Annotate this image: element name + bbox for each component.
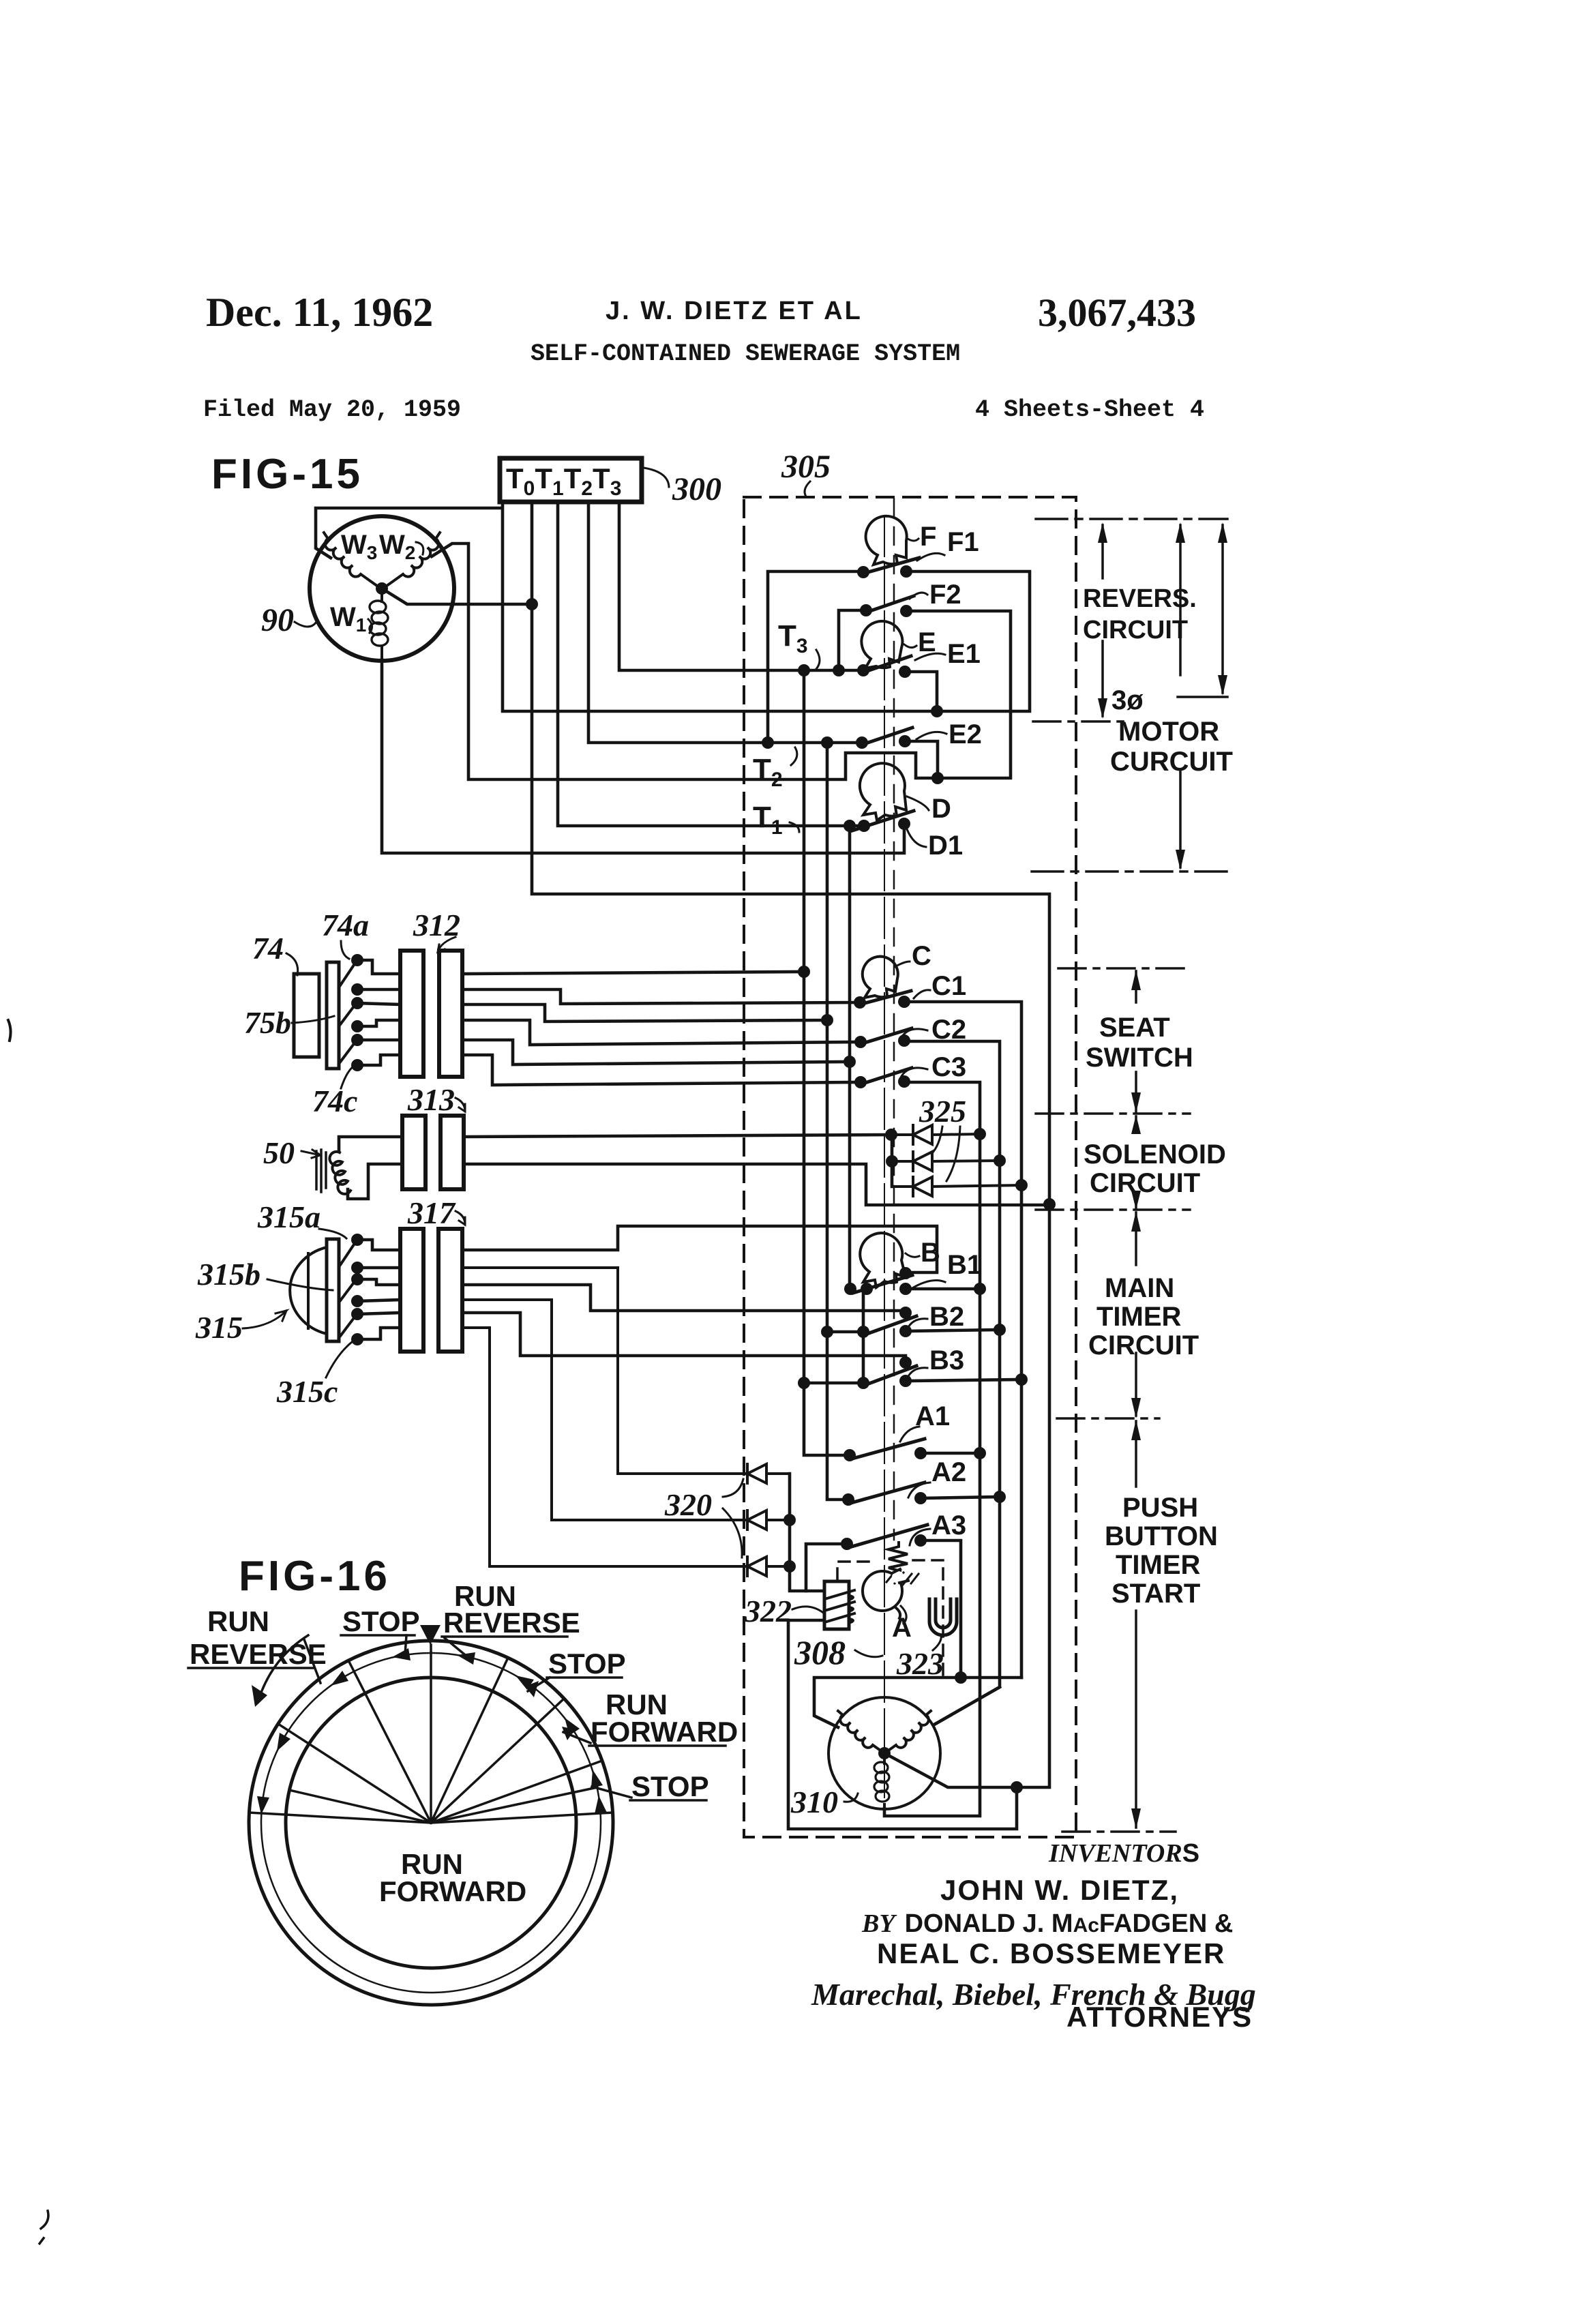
wire W1 net (motor W1 down and right to D1 contact) [382, 659, 904, 853]
leader RUN REVERSE left into ring [304, 1639, 320, 1683]
node riser/B2 pivot junction [821, 1326, 833, 1338]
node C2 right [898, 1034, 910, 1047]
leader 317 arrow [456, 1211, 465, 1225]
wire 312 pin1 to riser x1179 [462, 972, 804, 974]
leader 322 [792, 1607, 822, 1612]
motor 90 winding W1 coil [380, 589, 383, 659]
leader 320 a [723, 1479, 743, 1497]
wire B1 loop from 317 pin1 around relay B [462, 1226, 937, 1272]
node A3 pivot [841, 1538, 853, 1550]
leader 305 [805, 481, 810, 496]
svg-text:310: 310 [790, 1785, 838, 1819]
node diode a anode [885, 1129, 897, 1141]
node C1 right [898, 996, 910, 1008]
node 315c up [351, 1308, 363, 1320]
leader B1 [911, 1281, 945, 1289]
leader 325 a [931, 1127, 942, 1154]
wire C1 right to bus [904, 1002, 1021, 1678]
svg-text:325: 325 [919, 1094, 966, 1129]
contact A2 [848, 1483, 925, 1504]
leader C [895, 962, 910, 967]
wire diode 320 tie bar [788, 1474, 792, 1567]
contact A3 [847, 1525, 927, 1548]
svg-text:TIMER: TIMER [1116, 1550, 1201, 1580]
switch plate 74 [327, 962, 339, 1069]
svg-text:300: 300 [672, 471, 721, 507]
svg-text:INVENTORS: INVENTORS [1048, 1839, 1199, 1868]
node E1 left [857, 664, 869, 676]
svg-text:3,067,433: 3,067,433 [1038, 290, 1196, 335]
svg-text:FIG-15: FIG-15 [211, 451, 363, 498]
wire 315c up to 317 [357, 1313, 400, 1314]
dial spoke right horizontal [431, 1813, 613, 1823]
leader 74a [341, 941, 349, 959]
margin mark bottom-left [40, 2211, 48, 2244]
svg-text:F1: F1 [947, 527, 979, 557]
node motor 90 star point [376, 582, 388, 595]
node A2 pivot [842, 1493, 854, 1506]
divider dash-dot between seat and solenoid [1036, 1112, 1190, 1115]
divider dash-dot bottom of 3-phase motor circuit [1032, 870, 1227, 873]
svg-text:E1: E1 [947, 639, 981, 669]
ring arrow 75 [591, 1770, 603, 1788]
node 74a dn [351, 983, 363, 996]
ring arrow 84 [595, 1796, 607, 1814]
svg-text:3ø: 3ø [1111, 685, 1144, 715]
wire A3 no down to motor winding line [921, 1540, 961, 1678]
leader B2 [907, 1319, 927, 1330]
node A3 no contact [914, 1534, 927, 1547]
svg-text:J. W. DIETZ ET AL: J. W. DIETZ ET AL [606, 297, 863, 325]
svg-text:FORWARD: FORWARD [591, 1716, 738, 1748]
leader 90 [295, 622, 316, 627]
diode 320b [462, 1300, 790, 1530]
wire riser T3-net down to A1 (x1179) [804, 670, 850, 1455]
svg-text:F: F [920, 522, 936, 552]
dashed frame around relay A left [837, 1562, 869, 1581]
contact E1 [863, 656, 911, 672]
wire T3 net (terminal T3 down and right to contact E1) [619, 502, 863, 670]
node B3 nc contact [899, 1356, 912, 1369]
leader 315c [326, 1342, 352, 1377]
node 74a up [351, 954, 363, 966]
wire 315c dn to 317 [357, 1328, 400, 1339]
svg-text:NEAL C. BOSSEMEYER: NEAL C. BOSSEMEYER [877, 1937, 1225, 1969]
svg-text:A3: A3 [931, 1510, 966, 1540]
contact C2 [861, 1028, 912, 1044]
node B1R bus junction [974, 1283, 986, 1295]
node B2 nc contact [899, 1307, 912, 1319]
node diode c to bus [1015, 1179, 1028, 1191]
leader 310 [844, 1793, 858, 1802]
svg-text:90: 90 [261, 602, 294, 638]
svg-text:305: 305 [781, 449, 831, 485]
connector 313 right bar [441, 1116, 464, 1189]
svg-text:D1: D1 [928, 831, 963, 861]
svg-text:FIG-16: FIG-16 [239, 1553, 391, 1600]
leader 315 arrow [243, 1311, 286, 1328]
node B1 no contact [899, 1283, 912, 1295]
magnet 323 [929, 1599, 957, 1635]
leader E1 [915, 653, 945, 660]
leader 320 b [723, 1508, 742, 1558]
node F1 right [900, 565, 912, 578]
leader RUN REVERSE top [445, 1638, 468, 1657]
dimension line main timer [1135, 1212, 1137, 1416]
node B3 no contact [899, 1375, 912, 1387]
dial spoke right 70 [431, 1761, 602, 1823]
contact E2 [862, 728, 912, 745]
node T2/riser junction [821, 736, 833, 749]
dial spoke right 47 [431, 1699, 564, 1823]
leader 308 [855, 1650, 882, 1657]
svg-text:MAIN: MAIN [1105, 1273, 1174, 1303]
wire A1 no to bus [921, 1452, 980, 1455]
divider dash-dot top of seat switch [1058, 967, 1184, 970]
node E2R junction [931, 772, 944, 784]
motor 310 winding upper-right [886, 1711, 931, 1752]
node 315a dn [351, 1262, 363, 1274]
svg-text:JOHN W. DIETZ,: JOHN W. DIETZ, [940, 1874, 1179, 1906]
leader F2 [910, 593, 927, 599]
node E1R junction [931, 705, 943, 717]
wire C3 right to bus [884, 1082, 980, 1816]
dial inner ring [286, 1678, 576, 1968]
svg-text:BYDONALD J. MAcFADGEN &: BYDONALD J. MAcFADGEN & [861, 1909, 1233, 1938]
diode 325c [892, 1177, 1021, 1196]
relay coil F [866, 516, 907, 565]
leader 74c [341, 1067, 353, 1088]
leader T1 [790, 822, 799, 832]
dial middle ring [261, 1653, 601, 1993]
node 75b up [351, 997, 363, 1009]
terminal block 300 [500, 458, 642, 502]
svg-text:A1: A1 [915, 1401, 950, 1431]
diode 325b [892, 1152, 1000, 1171]
node C2 left [854, 1036, 867, 1048]
dimension line right aux [1221, 525, 1224, 693]
svg-text:B2: B2 [929, 1302, 964, 1332]
wire 74c dn to 312 [357, 1055, 400, 1065]
node B3 pivot [857, 1377, 869, 1389]
leader 315b [267, 1279, 333, 1290]
contact D [852, 811, 914, 831]
arrowhead down 3ph [1176, 850, 1185, 870]
svg-text:CIRCUIT: CIRCUIT [1090, 1168, 1200, 1198]
diode 320a [462, 1268, 790, 1483]
wire 312 pin6 to contact C3 [462, 1055, 861, 1085]
spring anchor hatching [886, 1571, 919, 1585]
connector 313 left bar [402, 1116, 426, 1189]
node 315a up [351, 1234, 363, 1246]
svg-text:Filed May 20, 1959: Filed May 20, 1959 [203, 396, 461, 423]
svg-text:B1: B1 [947, 1250, 982, 1280]
svg-text:F2: F2 [929, 580, 961, 610]
ring arrow -10 [392, 1648, 411, 1660]
svg-text:RUN: RUN [207, 1605, 269, 1637]
node 74c dn [351, 1059, 363, 1071]
node D pivot a [844, 820, 856, 832]
node B2 pivot [857, 1326, 869, 1338]
node diode b to bus [994, 1154, 1006, 1167]
wire B pivot tie [862, 1289, 865, 1383]
wire B3 no to bus [906, 1380, 1021, 1381]
svg-text:75b: 75b [244, 1005, 291, 1040]
node C3 left [854, 1076, 867, 1088]
leader STOP top [405, 1635, 406, 1654]
motor 310 winding upper-left [838, 1711, 882, 1752]
node diode a to bus [974, 1128, 986, 1140]
leader W1 [368, 619, 372, 633]
svg-text:E2: E2 [949, 719, 982, 749]
wire B2 no to bus [906, 1330, 1000, 1331]
arrowhead up revers [1098, 522, 1107, 543]
node A2 no contact [914, 1492, 927, 1504]
leader 312 arrow [438, 937, 456, 952]
lamp 315 plate [327, 1239, 339, 1341]
contact arm 74c [339, 1042, 355, 1064]
svg-text:START: START [1111, 1579, 1200, 1609]
svg-text:CURCUIT: CURCUIT [1110, 747, 1233, 777]
svg-text:323: 323 [896, 1646, 944, 1681]
svg-text:74c: 74c [312, 1084, 357, 1118]
wire 315b up to 317 [357, 1279, 400, 1285]
leader 75b [292, 1016, 334, 1023]
node A2R bus junction [994, 1491, 1006, 1503]
leader C1 [914, 990, 930, 998]
wire 313 pin2 to T0 bus [464, 1164, 1049, 1205]
svg-text:317: 317 [407, 1195, 456, 1230]
dial spoke left -77 [289, 1790, 431, 1823]
arrowhead up 3ph [1176, 522, 1185, 543]
divider dash-dot top of push button [1057, 1417, 1159, 1420]
contact C1 [860, 991, 911, 1004]
leader C2 [900, 1029, 927, 1040]
node E2 right [899, 735, 911, 747]
svg-text:ATTORNEYS: ATTORNEYS [1066, 2001, 1253, 2033]
dial spoke left -57 [278, 1724, 431, 1823]
wire 315b dn to 317 [357, 1300, 400, 1301]
leader F [908, 539, 919, 541]
wire 312 pin2 to contact C1 [462, 989, 860, 1004]
node B3R bus junction [1015, 1373, 1028, 1386]
node 315c dn [351, 1333, 363, 1345]
node 315b dn [351, 1295, 363, 1307]
ring arrow 33 [516, 1675, 534, 1690]
node C1 left [854, 996, 866, 1009]
leader 74 [286, 953, 298, 975]
arrowhead up seat [1131, 970, 1141, 990]
node 74c up [351, 1034, 363, 1046]
wire coil 322 top feed from diode bus [790, 1567, 824, 1591]
svg-text:74: 74 [252, 931, 284, 966]
leader A1 [900, 1427, 919, 1442]
ring arrow 55 [565, 1718, 580, 1735]
wire A3 pivot feed [806, 1544, 847, 1591]
svg-text:315c: 315c [276, 1374, 338, 1409]
motor 90 winding W3 coil [324, 533, 380, 588]
node D1 contact [898, 818, 910, 830]
node F2 left [860, 604, 872, 616]
node B2 no contact [899, 1325, 912, 1337]
arrowhead down push [1131, 1808, 1141, 1829]
wire W3 net (motor W3 to box corner, down to F1/E1 right contacts) [316, 502, 1030, 711]
diode 325a [891, 1125, 980, 1144]
leader RUN FORWARD right [563, 1732, 591, 1743]
connector 317 right bar [438, 1229, 462, 1352]
svg-text:C3: C3 [931, 1052, 966, 1082]
node B2R bus junction [994, 1324, 1006, 1336]
dimension line revers circuit [1101, 525, 1104, 716]
wire T2 net (terminal T2 down and right to contact E2) [588, 502, 862, 743]
dimension arrows solenoid [1135, 1116, 1137, 1208]
node riser/C3-feed junction [844, 1056, 856, 1068]
node T3/F2-left junction [833, 664, 845, 676]
contact arm 315c [339, 1316, 355, 1338]
diode 320c [462, 1328, 790, 1576]
svg-text:322: 322 [744, 1594, 792, 1628]
dial spoke left -27 [348, 1660, 431, 1823]
dial spoke right 78 [431, 1787, 597, 1823]
node T3/riser junction [798, 664, 810, 676]
leader A2 [908, 1483, 930, 1498]
ring arrow -84 [257, 1796, 269, 1815]
leader 315a [319, 1229, 346, 1238]
margin mark left [8, 1020, 11, 1041]
contact arm 315b [339, 1281, 355, 1302]
node A3R on winding line [955, 1671, 967, 1684]
contact arm 315a [339, 1242, 355, 1267]
svg-text:315b: 315b [197, 1257, 260, 1292]
contact C3 [861, 1068, 912, 1084]
relay coil C [863, 957, 898, 998]
connector 312 left bar [400, 951, 423, 1077]
svg-text:313: 313 [407, 1082, 455, 1117]
node diode 320c out [783, 1560, 796, 1573]
relay coil B [860, 1233, 906, 1287]
dashed enclosure 305 [744, 497, 1076, 1837]
divider dash-dot bottom of push button [1062, 1830, 1176, 1833]
node T0 bus bottom rail tap [1011, 1781, 1023, 1793]
svg-text:A: A [892, 1613, 912, 1643]
wire riser from D pivot to B1 pivot [848, 826, 852, 1289]
motor 310 winding lower [883, 1753, 886, 1808]
coil 322 body [824, 1581, 849, 1629]
ring arrow 12 [457, 1652, 475, 1665]
svg-text:B3: B3 [929, 1345, 964, 1375]
svg-text:C1: C1 [931, 971, 966, 1001]
svg-text:320: 320 [664, 1487, 712, 1522]
node riser/312 wire junction [798, 966, 810, 978]
coil 322 windings [824, 1590, 854, 1623]
arrowhead down aux [1218, 675, 1227, 696]
arrowhead up push [1131, 1420, 1141, 1440]
relay coil E [861, 621, 902, 668]
arrowhead down revers [1098, 698, 1107, 719]
leader 325 b [946, 1127, 960, 1181]
node diode 320b out [783, 1514, 796, 1526]
wire W2 net (motor W2 down, bump over relay D, to F2/E2 right contacts) [432, 543, 1011, 779]
leader E2 [916, 732, 946, 739]
node T2/F1-left junction [762, 736, 774, 749]
leader STOP lower right [592, 1787, 631, 1798]
dial outer ring [249, 1641, 613, 2005]
svg-text:CIRCUIT: CIRCUIT [1083, 616, 1188, 644]
svg-text:SEAT: SEAT [1099, 1013, 1170, 1043]
wire motor 310 upper-right winding lead [934, 1687, 1000, 1725]
motor 90 circle [310, 516, 454, 661]
wire 74a up to 312 [357, 960, 400, 974]
dimension line push button [1135, 1421, 1137, 1828]
wire 315a up to 317 [357, 1240, 400, 1250]
connector 312 right bar [439, 951, 462, 1077]
wire diode tie bar [891, 1135, 894, 1187]
arrowhead down solenoid [1131, 1191, 1141, 1210]
node A1R bus junction [974, 1447, 986, 1459]
svg-text:74a: 74a [322, 908, 369, 942]
relay coil D [860, 763, 906, 820]
svg-text:SOLENOID: SOLENOID [1084, 1139, 1226, 1170]
wire 75b dn to 312 [357, 1020, 400, 1026]
svg-text:PUSH: PUSH [1122, 1493, 1198, 1523]
leader T2 [791, 747, 797, 765]
wire 74c up to 312 [357, 1039, 400, 1042]
svg-text:REVERSE: REVERSE [443, 1607, 580, 1639]
wire B1 no to bus [906, 1287, 980, 1291]
leader STOP right [528, 1678, 550, 1691]
relay coil A [863, 1571, 902, 1611]
arrowhead up solenoid [1131, 1115, 1141, 1134]
leader B3 [907, 1368, 927, 1379]
node E1 right [899, 666, 911, 678]
svg-text:315: 315 [195, 1310, 243, 1345]
leader to 300 [644, 468, 669, 487]
dial spoke right 25 [431, 1658, 508, 1823]
leader F1 [917, 553, 944, 561]
node A1 pivot [844, 1449, 856, 1461]
svg-text:50: 50 [263, 1135, 295, 1170]
node riser/312 wire junction [821, 1014, 833, 1026]
leader D [907, 796, 929, 810]
wire B2 pivot stub [827, 1330, 863, 1334]
node B1 box contact [899, 1267, 912, 1279]
contact F1 [863, 558, 919, 573]
contact A1 [850, 1439, 925, 1459]
dimension line seat switch [1135, 971, 1137, 1112]
wire 312 pin3 to riser x1213 [462, 1004, 827, 1022]
dial spoke vertical [430, 1645, 432, 1823]
svg-text:A2: A2 [931, 1457, 966, 1487]
node T0 bus solenoid tap [1043, 1198, 1056, 1210]
node 75b dn [351, 1020, 363, 1032]
rotation arrow outside left [258, 1635, 308, 1702]
svg-text:D: D [931, 794, 951, 824]
contact arm 74a [339, 963, 355, 987]
contact arm 75b [339, 1004, 355, 1026]
node A1 no contact [914, 1447, 927, 1459]
wire 313 pin1 to diodes 325 [464, 1135, 891, 1137]
leader 323 [933, 1635, 941, 1650]
contact F2 [866, 596, 914, 612]
ring arrow -62 [277, 1733, 290, 1751]
leader A3 [910, 1529, 930, 1545]
arrowhead down seat [1131, 1092, 1141, 1113]
wire 317 pin5 to B3 nc [462, 1313, 906, 1362]
wire A2 no to bus [921, 1497, 1000, 1498]
leader C3 [900, 1068, 927, 1079]
leader T3 [816, 650, 820, 669]
svg-text:BUTTON: BUTTON [1105, 1521, 1218, 1551]
